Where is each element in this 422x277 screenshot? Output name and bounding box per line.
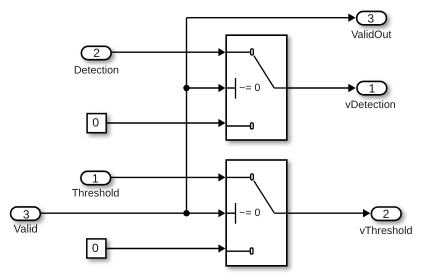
junction dot at Valid wire branch [183, 210, 189, 216]
svg-text:~= 0: ~= 0 [239, 82, 260, 94]
switch U2 in3 port marker [250, 248, 253, 254]
wire Constant2 to Switch2 in3 [106, 248, 220, 250]
svg-text:Detection: Detection [74, 64, 119, 76]
svg-text:0: 0 [92, 241, 99, 255]
switch U2 in1 stub [227, 176, 250, 178]
switch U2 output stub [274, 212, 287, 214]
inport 2 Detection [81, 46, 111, 59]
svg-text:2: 2 [93, 46, 100, 60]
svg-text:vThreshold: vThreshold [360, 225, 413, 237]
inport 3 Valid [11, 207, 41, 220]
arrowhead Switch2 in1 [218, 173, 225, 181]
inport 1 Threshold [81, 171, 111, 184]
svg-text:vDetection: vDetection [345, 99, 396, 111]
switch U2 control stub [227, 212, 236, 214]
constant block 0 upper [87, 114, 106, 133]
svg-text:3: 3 [23, 207, 30, 221]
switch U1 in1 port marker [251, 49, 254, 55]
wire Valid to Switch2 in2 [41, 212, 220, 214]
arrowhead vDetection [348, 84, 355, 92]
constant block 0 lower [87, 239, 106, 258]
junction dot at Switch1 control branch [183, 85, 189, 91]
arrowhead Switch1 in3 [218, 119, 225, 127]
wire branch to Switch1 in2 [187, 87, 220, 89]
arrowhead vThreshold [363, 209, 370, 217]
wire Threshold to Switch2 in1 [111, 176, 220, 178]
switch U1 output stub [274, 87, 287, 89]
svg-text:3: 3 [367, 12, 374, 26]
switch U1 selector diagonal [254, 56, 274, 88]
wire Detection to Switch1 in1 [112, 51, 220, 53]
arrowhead Switch1 in2 [218, 84, 225, 92]
svg-text:Threshold: Threshold [72, 188, 120, 200]
switch U2 control tick [235, 203, 237, 224]
wire top to ValidOut [187, 17, 350, 19]
switch U2 in3 stub [227, 250, 250, 252]
wire Constant1 to Switch1 in3 [107, 122, 220, 124]
arrowhead Switch2 in3 [218, 244, 225, 252]
arrowhead ValidOut [348, 14, 355, 22]
switch U1 in3 port marker [251, 123, 254, 129]
wire Valid branch vertical [186, 18, 188, 214]
arrowhead Switch2 in2 [218, 209, 225, 217]
switch U2 body [226, 160, 287, 266]
svg-text:~= 0: ~= 0 [239, 207, 260, 219]
svg-text:0: 0 [92, 116, 99, 130]
svg-text:1: 1 [92, 171, 99, 185]
switch U2 in1 port marker [251, 174, 254, 180]
outport 2 vThreshold [371, 207, 401, 220]
wire Switch2 out to vThreshold [288, 212, 365, 214]
switch U1 in3 stub [227, 125, 250, 127]
switch U2 selector diagonal [254, 181, 275, 213]
switch U1 body [226, 35, 287, 140]
svg-text:Valid: Valid [14, 224, 38, 236]
switch U1 control stub [227, 87, 236, 89]
outport 3 ValidOut [357, 11, 387, 24]
outport 1 vDetection [357, 81, 387, 94]
wire Switch1 out to vDetection [288, 87, 350, 89]
switch U1 in1 stub [227, 51, 250, 53]
svg-text:2: 2 [383, 207, 390, 221]
switch U1 control tick [235, 78, 237, 99]
svg-text:ValidOut: ValidOut [351, 29, 391, 41]
arrowhead Switch1 in1 [218, 48, 225, 56]
svg-text:1: 1 [369, 82, 376, 96]
